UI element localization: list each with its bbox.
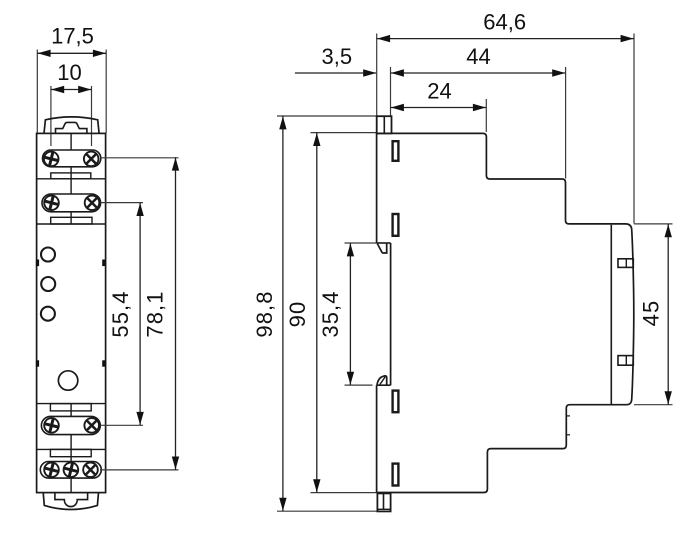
dim 45 extension top <box>634 223 673 225</box>
module outline top and right <box>377 133 634 492</box>
edge mark bottom-right <box>102 360 105 366</box>
module top clip <box>44 117 99 134</box>
screw row2 right (slotted X) <box>83 193 102 212</box>
dim 35,4 line <box>349 243 351 385</box>
dim 10 line <box>51 89 92 91</box>
extension line row1 <box>100 157 179 159</box>
dim 17,5 arrow right <box>93 50 106 57</box>
screw row4 middle (phillips) <box>63 462 79 478</box>
dim 55,4 arrow bottom <box>136 412 143 425</box>
screw row4 right (slotted X) <box>81 460 100 479</box>
svg-text:3,5: 3,5 <box>322 44 353 69</box>
extension line row4 <box>100 469 179 471</box>
extension line row3 <box>101 424 144 426</box>
front step at 385 <box>377 384 391 386</box>
extension line front face top <box>376 34 378 116</box>
dim 17,5 extension line left <box>36 50 38 134</box>
module top tab divider <box>383 116 385 133</box>
dim 98,8 extension bottom <box>277 510 377 512</box>
rail grip bottom <box>618 356 633 366</box>
button circle <box>58 371 77 390</box>
recessed face <box>390 243 392 385</box>
rail grip top <box>618 259 633 268</box>
edge mark bottom-left <box>36 360 39 366</box>
svg-text:90: 90 <box>285 301 310 328</box>
edge mark top-left <box>36 260 39 267</box>
dim 55,4 arrow top <box>136 203 143 216</box>
dim 64,6 arrow left <box>377 35 390 42</box>
dim 90 arrow top <box>313 133 320 146</box>
tab rect row3 <box>50 404 91 411</box>
screw row4 left (phillips) <box>43 462 59 478</box>
svg-text:44: 44 <box>466 44 490 69</box>
module body outline <box>37 133 106 492</box>
dim 78,1 line <box>175 157 177 470</box>
dim 44 line <box>391 72 566 74</box>
dim 3,5 line <box>295 72 376 74</box>
front face upper segment <box>376 133 378 243</box>
module bottom tab <box>377 493 390 511</box>
dim 10 extension line right <box>91 86 93 146</box>
dim 17,5 line <box>37 52 106 54</box>
screw row1 left (phillips) <box>43 151 59 167</box>
dim 45 arrow bottom <box>665 391 672 404</box>
module top clip hat <box>56 122 87 133</box>
extension line row2 <box>101 202 144 204</box>
screw row2 left (phillips) <box>43 195 59 211</box>
dim 44 arrow left <box>391 69 404 76</box>
dim 17,5 extension line right <box>105 50 107 134</box>
tab rect row1 <box>51 173 91 179</box>
bottom clip notch <box>55 493 88 507</box>
dim 10 extension line left <box>50 86 52 146</box>
module top tab <box>377 116 392 133</box>
terminal stadium row2 <box>42 194 101 212</box>
dim 24 arrow left <box>391 104 404 111</box>
dim 17,5 arrow left <box>38 50 51 57</box>
dim 55,4 line <box>139 203 141 426</box>
svg-text:55,4: 55,4 <box>108 290 133 337</box>
svg-text:64,6: 64,6 <box>483 10 526 35</box>
hook 1 <box>377 244 386 253</box>
dim 98,8 arrow top <box>279 116 286 129</box>
dim 10 arrow right <box>78 86 91 93</box>
dim 35,4 extension top <box>345 242 377 244</box>
dim 35,4 extension bottom <box>345 384 373 386</box>
dim 10 arrow left <box>51 86 64 93</box>
tick marks on step3 <box>566 415 570 417</box>
edge mark top-right <box>102 260 105 267</box>
section line 3 <box>37 403 106 405</box>
dim 24 arrow right <box>473 104 486 111</box>
dim 35,4 arrow top <box>347 243 354 256</box>
LED 1 <box>41 248 55 262</box>
section line 4 <box>37 448 106 450</box>
LED 3 <box>41 307 55 321</box>
svg-text:78,1: 78,1 <box>143 290 168 337</box>
terminal stadium row1 <box>43 150 101 167</box>
hook 2 inner slant <box>380 377 385 385</box>
dim 98,8 line <box>282 116 284 511</box>
hook 2 <box>377 376 387 385</box>
svg-text:24: 24 <box>427 79 451 104</box>
dim 45 line <box>667 224 669 405</box>
tab rect row4 <box>50 449 91 456</box>
screw row3 right (slotted X) <box>82 416 101 435</box>
dim 24 line <box>391 107 487 109</box>
svg-text:17,5: 17,5 <box>51 24 94 49</box>
extension line step2 <box>565 67 567 179</box>
screw row3 left (phillips) <box>43 417 59 433</box>
dim 78,1 arrow bottom <box>172 457 179 470</box>
vent slot 3 <box>393 391 399 413</box>
dim 44 arrow right <box>552 69 565 76</box>
dim 90 extension top <box>311 132 377 134</box>
screw row1 right (slotted X) <box>82 150 101 169</box>
center seam segments <box>70 133 72 150</box>
extension line recessed face <box>390 67 392 116</box>
svg-text:35,4: 35,4 <box>318 290 343 337</box>
dim 78,1 arrow top <box>172 158 179 171</box>
section line 1 <box>37 178 106 180</box>
extension line step1 <box>485 99 487 132</box>
vent slot 4 <box>393 464 399 486</box>
dim 3,5 arrow <box>363 69 376 76</box>
dim 90 line <box>316 133 318 493</box>
svg-text:98,8: 98,8 <box>252 290 277 337</box>
svg-text:45: 45 <box>639 300 664 327</box>
bottom clip <box>43 493 98 510</box>
dim 90 arrow bottom <box>313 479 320 492</box>
terminal stadium row4 <box>40 462 101 479</box>
dim 45 arrow top <box>665 224 672 237</box>
dim 35,4 arrow bottom <box>347 372 354 385</box>
bottom tab inner line <box>377 508 390 510</box>
section line 2 <box>37 223 106 225</box>
vent slot 1 <box>393 141 399 161</box>
dim 98,8 arrow bottom <box>279 498 286 511</box>
dim 64,6 line <box>377 38 634 40</box>
dim 45 extension bottom <box>634 404 673 406</box>
bottom tab divider <box>383 493 385 509</box>
LED 2 <box>41 277 55 291</box>
tab rect row2 <box>51 217 92 224</box>
rail inner face <box>610 225 612 404</box>
terminal stadium row3 <box>41 416 100 434</box>
svg-text:10: 10 <box>57 60 81 85</box>
extension line rail outer top <box>633 34 635 224</box>
front step at 243 <box>377 242 391 244</box>
dim 64,6 arrow right <box>621 35 634 42</box>
front face lower segment <box>376 385 378 492</box>
vent slot 2 <box>393 214 399 236</box>
dim 90 extension bottom <box>311 492 377 494</box>
dim 98,8 extension top <box>277 115 377 117</box>
